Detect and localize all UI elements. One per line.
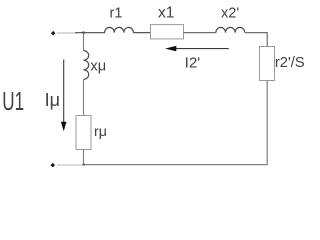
current arrow Iu (down) [61, 60, 67, 132]
resistor box r2'/S [260, 47, 275, 81]
reactance box x1 [151, 25, 184, 39]
wire top junction down to xu [83, 33, 85, 51]
svg-text:x2': x2' [221, 6, 239, 22]
node junction top [82, 32, 84, 34]
svg-text:r1: r1 [110, 6, 123, 22]
node junction bottom [82, 164, 84, 166]
wire r2'/S to bottom-right corner [84, 81, 268, 165]
inductor x2' [216, 27, 245, 32]
wire top rail junction to r1 [75, 32, 105, 34]
svg-text:Iμ: Iμ [45, 90, 60, 110]
svg-text:U1: U1 [2, 88, 24, 116]
svg-text:x1: x1 [158, 5, 174, 22]
current arrow I2' (left) [165, 46, 229, 52]
wire ru to bottom junction [83, 150, 85, 166]
terminal dot top-left [51, 31, 56, 36]
wire top rail faint segment from terminal [57, 32, 77, 34]
wire x2' to top-right corner down to r2'/S [245, 33, 267, 47]
wire bottom rail faint segment to terminal [57, 164, 84, 166]
wire r1 to x1 [133, 32, 151, 34]
resistor box ru [76, 116, 91, 150]
svg-text:xμ: xμ [90, 58, 106, 74]
terminal dot bottom-left [50, 163, 55, 168]
svg-text:r2'/S: r2'/S [275, 55, 305, 71]
inductor r1 [105, 27, 134, 32]
wire x1 to x2' [184, 32, 217, 34]
inductor xu [84, 51, 89, 80]
svg-text:I2': I2' [185, 54, 201, 71]
wire xu to ru [83, 79, 85, 116]
svg-text:rμ: rμ [94, 124, 107, 140]
